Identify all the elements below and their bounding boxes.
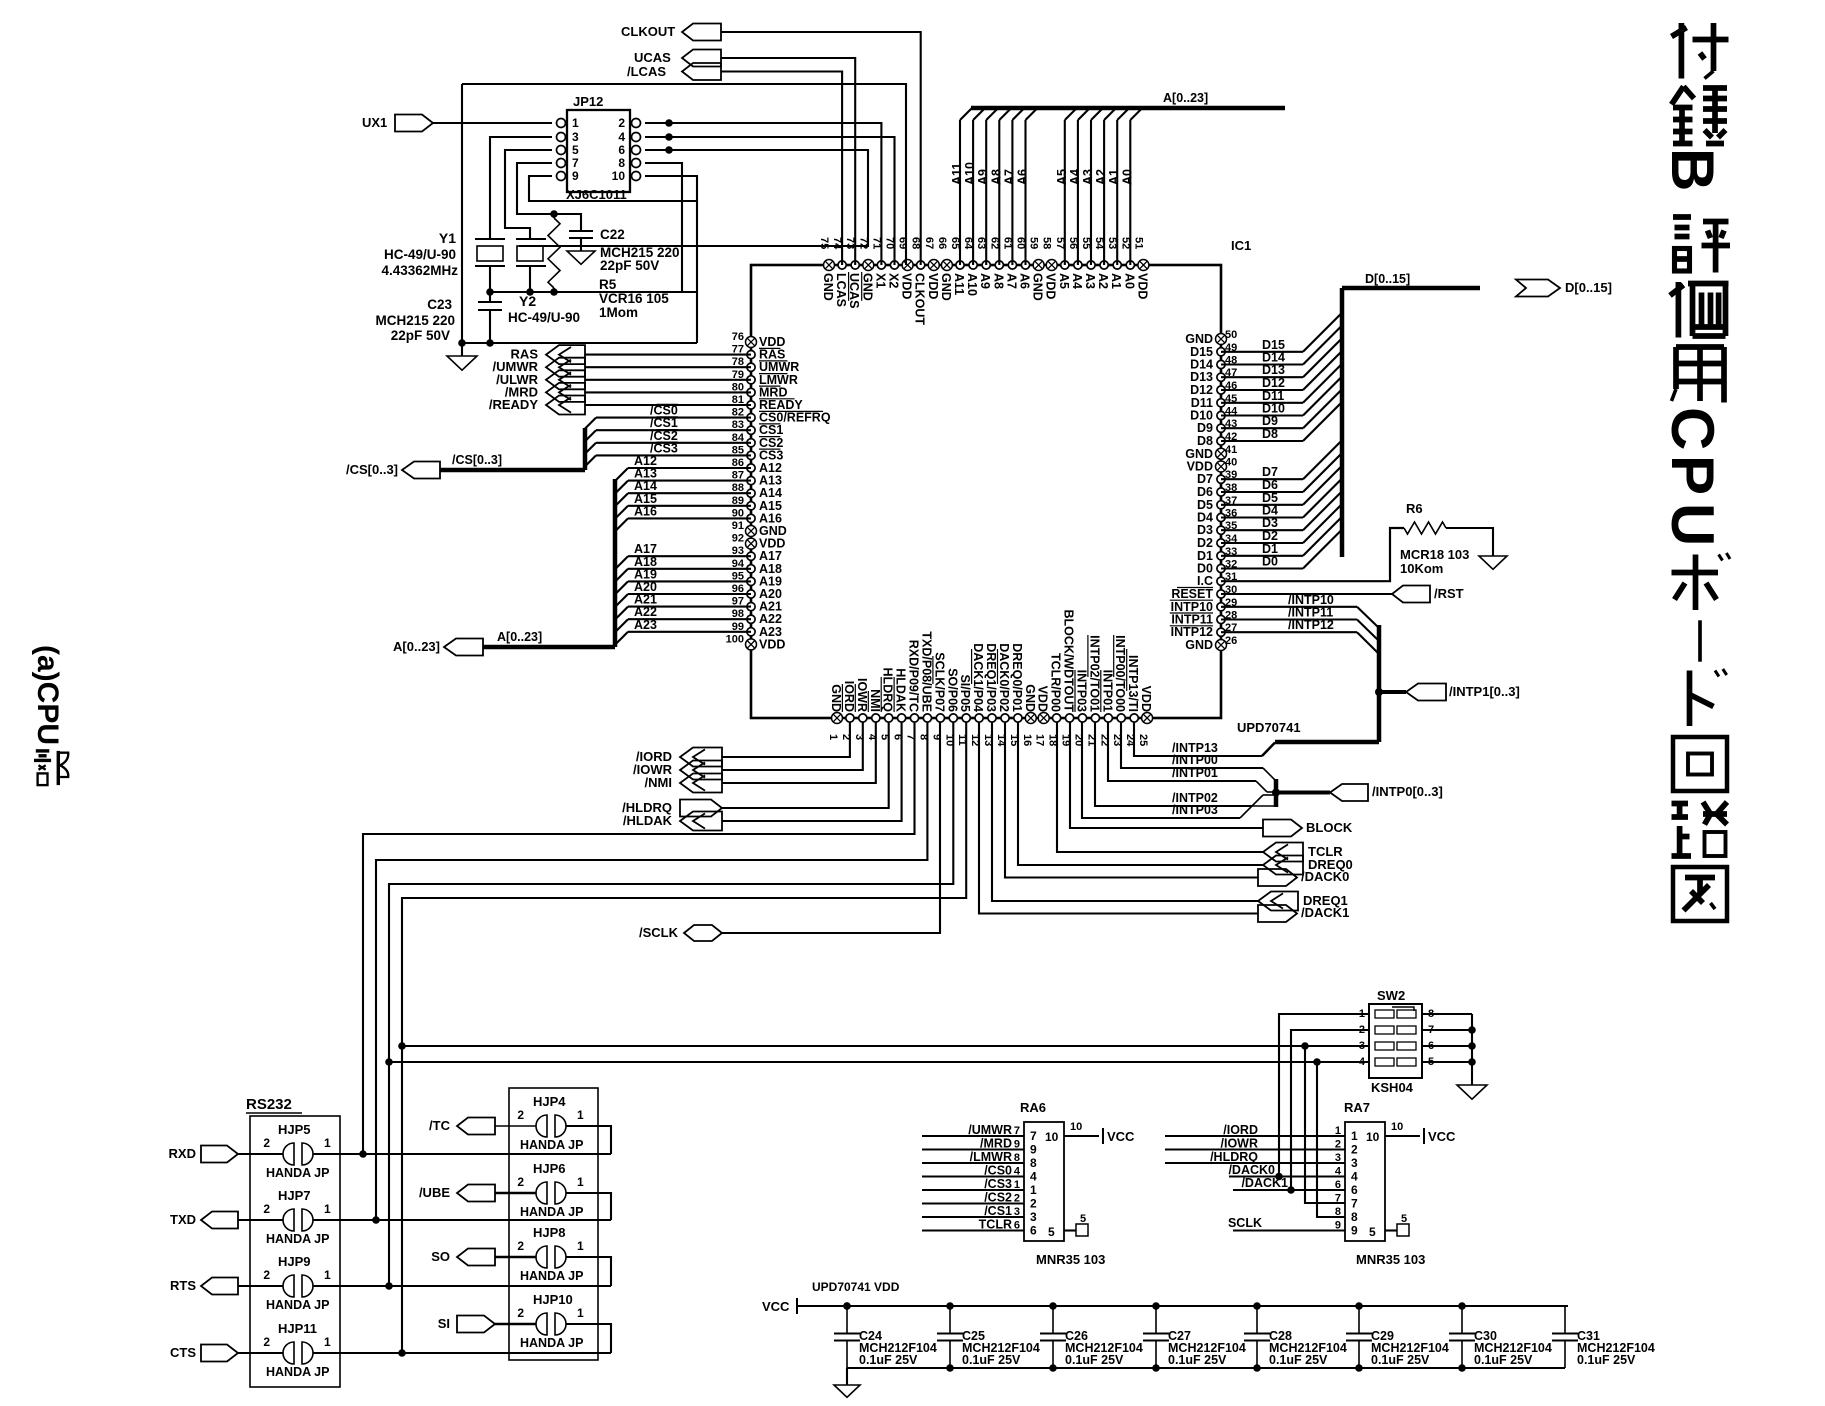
svg-text:5: 5 bbox=[1080, 1213, 1086, 1225]
solder jumper HJP6 HANDA JP bbox=[536, 1182, 547, 1204]
svg-text:/CS1: /CS1 bbox=[984, 1204, 1012, 1218]
wire /RST to RESET pin 30 bbox=[1221, 593, 1392, 595]
svg-text:/CS3: /CS3 bbox=[984, 1177, 1012, 1191]
RA6 pin 3 wire /CS1 bbox=[922, 1216, 1024, 1218]
IC1 pin 22 (INTP01) bbox=[1104, 714, 1112, 722]
wire SCLK to RA7 pin 9 bbox=[1233, 1229, 1345, 1231]
capacitor C27 MCH212F104 0.1uF 25V bbox=[1155, 1306, 1157, 1334]
resistor R6 MCR18 103 10Kom bbox=[1404, 522, 1446, 534]
IC1 pin 11 (SI/P05) bbox=[962, 714, 970, 722]
svg-text:10: 10 bbox=[1366, 1130, 1380, 1144]
svg-text:R6: R6 bbox=[1406, 501, 1423, 516]
IC1 pin 58 (VDD) bbox=[1046, 260, 1057, 271]
TXD connector arrow bbox=[201, 1212, 238, 1229]
RA6 pin 8 wire /LMWR bbox=[922, 1162, 1024, 1164]
capacitor C24 MCH212F104 0.1uF 25V bbox=[846, 1306, 848, 1334]
junction SW2 pin4/RTS riser bbox=[385, 1058, 393, 1066]
svg-text:RXD/P09/TC: RXD/P09/TC bbox=[907, 640, 921, 712]
svg-text:4: 4 bbox=[1030, 1170, 1037, 1184]
IC1 pin 78 (UMWR) bbox=[747, 363, 755, 371]
IC1 pin 1 (GND) bbox=[832, 713, 843, 724]
interrupt bus bottom horizontal bbox=[1275, 740, 1379, 745]
crystal Y2 HC-49/U-90 bbox=[516, 238, 546, 240]
JP12 pin 9 bbox=[557, 172, 566, 181]
capacitor C29 MCH212F104 0.1uF 25V bbox=[1358, 1306, 1360, 1334]
wire HJP4 output loop bbox=[566, 1126, 611, 1154]
svg-text:/NMI: /NMI bbox=[645, 775, 672, 790]
/UBE connector arrow bbox=[457, 1185, 495, 1202]
svg-text:VCC: VCC bbox=[762, 1299, 790, 1314]
resistor array RA7 MNR35 103 bbox=[1345, 1122, 1385, 1241]
svg-text:1: 1 bbox=[324, 1335, 331, 1349]
svg-text:P: P bbox=[1659, 455, 1726, 495]
svg-text:10: 10 bbox=[612, 169, 626, 183]
svg-text:D8: D8 bbox=[1262, 427, 1278, 441]
svg-text:1: 1 bbox=[572, 116, 579, 130]
wire /INTP12 bbox=[1221, 631, 1357, 633]
svg-text:X1: X1 bbox=[873, 273, 887, 288]
SW2 switch element 3 bbox=[1375, 1042, 1394, 1050]
IC1 pin 60 (A6) bbox=[1021, 261, 1029, 269]
svg-text:A[0..23]: A[0..23] bbox=[1163, 91, 1208, 105]
svg-text:UCAS: UCAS bbox=[634, 50, 671, 65]
wire R6 to ground bbox=[1446, 528, 1493, 556]
/IORD connector arrow bbox=[680, 748, 722, 767]
D[0..15] connector arrow bbox=[1516, 280, 1560, 297]
svg-text:VCR16 105: VCR16 105 bbox=[599, 291, 669, 306]
junction on JP12 pin 6 net bbox=[665, 146, 673, 154]
svg-text:22pF 50V: 22pF 50V bbox=[391, 328, 450, 343]
/HLDRQ connector arrow bbox=[680, 800, 722, 817]
wire /HLDAK from pin 6 bbox=[722, 722, 902, 821]
IC1 pin 57 (A5) bbox=[1061, 261, 1069, 269]
svg-text:7: 7 bbox=[1351, 1197, 1358, 1211]
IC1 pin 76 (VDD) bbox=[746, 337, 757, 348]
wire /DACK0 from pin 14 bbox=[1005, 722, 1258, 878]
wire address A9 from bus to pin 63 bbox=[985, 120, 987, 265]
wire /INTP03 from pin 20 bbox=[1082, 722, 1240, 818]
IC1 pin 64 (A10) bbox=[969, 261, 977, 269]
A[0..23] connector arrow bbox=[444, 639, 483, 656]
svg-text:UX1: UX1 bbox=[362, 115, 387, 130]
svg-text:VDD: VDD bbox=[1139, 686, 1153, 712]
svg-text:BLOCK: BLOCK bbox=[1306, 820, 1353, 835]
svg-text:/TC: /TC bbox=[429, 1118, 451, 1133]
svg-text:D14: D14 bbox=[1190, 358, 1213, 372]
svg-text:4: 4 bbox=[1014, 1166, 1021, 1178]
wire SO arrow to jumper bbox=[495, 1256, 536, 1259]
ground below C22 bbox=[567, 251, 595, 264]
wire JP12 pin 4 to X2 bbox=[645, 137, 895, 265]
wire A20 bbox=[628, 593, 751, 595]
svg-text:MNR35 103: MNR35 103 bbox=[1356, 1252, 1425, 1267]
svg-text:VDD: VDD bbox=[1187, 460, 1213, 474]
wire pin 11 SI to RS232 section bbox=[402, 722, 966, 1353]
svg-text:HLDRQ: HLDRQ bbox=[881, 668, 895, 713]
svg-text:HJP6: HJP6 bbox=[533, 1161, 566, 1176]
IC1 pin 79 (LMWR) bbox=[747, 376, 755, 384]
svg-text:/DACK0: /DACK0 bbox=[1301, 869, 1349, 884]
svg-text:22pF 50V: 22pF 50V bbox=[600, 258, 659, 273]
IC1 pin 15 (DREQ0/P01) bbox=[1014, 714, 1022, 722]
junction on JP12 pin 4 net bbox=[665, 133, 673, 141]
svg-text:HANDA JP: HANDA JP bbox=[520, 1269, 583, 1283]
wire data D15 pin 49 to bus bbox=[1221, 351, 1303, 353]
IC1 pin 20 (INTP03) bbox=[1078, 714, 1086, 722]
svg-text:8: 8 bbox=[1351, 1210, 1358, 1224]
wire data D7 pin 39 to bus bbox=[1221, 478, 1303, 480]
interrupt bus /INTP0[0..3] bar bbox=[1274, 779, 1279, 807]
wire TXD jumper to right bbox=[313, 1219, 611, 1221]
svg-text:0.1uF 25V: 0.1uF 25V bbox=[1269, 1353, 1328, 1367]
svg-text:SO/P06: SO/P06 bbox=[945, 668, 959, 712]
wire /INTP00 from pin 23 bbox=[1121, 722, 1263, 768]
svg-text:D5: D5 bbox=[1197, 498, 1213, 512]
svg-text:GND: GND bbox=[939, 273, 953, 301]
solder jumper HJP7 HANDA JP bbox=[283, 1209, 294, 1231]
wire pin 8 TXD to RS232 section bbox=[376, 722, 927, 1220]
IC1 pin 25 (VDD) bbox=[1142, 713, 1153, 724]
svg-text:0.1uF 25V: 0.1uF 25V bbox=[1474, 1353, 1533, 1367]
wire /IORD from pin 2 bbox=[722, 722, 850, 757]
/RST connector arrow bbox=[1392, 586, 1430, 603]
svg-text:1: 1 bbox=[324, 1202, 331, 1216]
svg-text:10: 10 bbox=[1070, 1121, 1082, 1133]
ground node wire y=343 bbox=[462, 342, 697, 344]
IC1 pin 39 (D7) bbox=[1217, 475, 1225, 483]
/CS[0..3] connector arrow bbox=[402, 462, 440, 479]
wire data D14 pin 48 to bus bbox=[1221, 363, 1303, 365]
solder jumper HJP9 HANDA JP bbox=[283, 1275, 294, 1297]
svg-text:(a)CPU: (a)CPU bbox=[31, 645, 64, 745]
/TC connector arrow bbox=[457, 1118, 495, 1135]
svg-text:/READY: /READY bbox=[489, 397, 538, 412]
svg-text:6: 6 bbox=[1030, 1224, 1037, 1238]
wire RTS arrow to jumper bbox=[238, 1285, 283, 1287]
svg-text:A3: A3 bbox=[1081, 169, 1095, 185]
svg-text:D0: D0 bbox=[1197, 562, 1213, 576]
svg-text:GND: GND bbox=[821, 273, 835, 301]
svg-text:D6: D6 bbox=[1197, 485, 1213, 499]
svg-text:A11: A11 bbox=[950, 163, 964, 185]
svg-text:GND: GND bbox=[829, 684, 843, 712]
IC1 pin 85 (CS3) bbox=[747, 451, 755, 459]
IC1 pin 55 (A3) bbox=[1087, 261, 1095, 269]
svg-text:4: 4 bbox=[1351, 1170, 1358, 1184]
svg-text:2: 2 bbox=[1014, 1193, 1020, 1205]
wire /INTP11 bbox=[1221, 618, 1357, 620]
RAS connector arrow bbox=[546, 345, 585, 364]
junction TXD riser bbox=[372, 1216, 380, 1224]
wire data D4 pin 36 to bus bbox=[1221, 516, 1303, 518]
JP12 pin 4 bbox=[632, 133, 641, 142]
svg-text:2: 2 bbox=[618, 116, 625, 130]
wire bus to /INTP0[0..3] connector bbox=[1276, 791, 1330, 795]
wire A19 bbox=[628, 580, 751, 582]
svg-text:2: 2 bbox=[263, 1202, 270, 1216]
svg-text:/INTP01: /INTP01 bbox=[1172, 766, 1218, 780]
wire upper rail to VDD pin 69 region bbox=[462, 84, 906, 265]
jumper block JP12 XJ6C1011 bbox=[567, 110, 630, 192]
svg-text:1Mom: 1Mom bbox=[599, 305, 638, 320]
svg-text:A8: A8 bbox=[989, 169, 1003, 185]
svg-text:9: 9 bbox=[1351, 1224, 1358, 1238]
wire A16 bbox=[628, 517, 751, 519]
wire address A0 from bus to pin 52 bbox=[1129, 120, 1131, 265]
wire I.C pin 31 to R6 bbox=[1221, 528, 1404, 581]
svg-text:HLDAK: HLDAK bbox=[894, 668, 908, 712]
IC1 pin 29 (INTP10) bbox=[1217, 603, 1225, 611]
wire data D3 pin 35 to bus bbox=[1221, 529, 1303, 531]
data bus D[0..15] horizontal to connector bbox=[1342, 286, 1480, 291]
svg-text:/INTP03: /INTP03 bbox=[1172, 803, 1218, 817]
IC1 pin 40 (VDD) bbox=[1216, 461, 1227, 472]
svg-text:2: 2 bbox=[517, 1239, 524, 1253]
wire TCLR from pin 18 bbox=[1057, 722, 1263, 852]
DIP switch SW2 KSH04 bbox=[1369, 1004, 1422, 1078]
svg-text:MCH215 220: MCH215 220 bbox=[375, 313, 455, 328]
svg-text:CTS: CTS bbox=[170, 1345, 196, 1360]
IC1 pin 4 (NMI) bbox=[872, 714, 880, 722]
IC1 pin 59 (GND) bbox=[1033, 260, 1044, 271]
wire UX1 to JP12 pin 1 bbox=[433, 122, 552, 124]
svg-text:TXD: TXD bbox=[170, 1212, 196, 1227]
resistor array RA6 MNR35 103 bbox=[1024, 1122, 1064, 1241]
IC1 pin 69 (VDD) bbox=[902, 260, 913, 271]
svg-text:GND: GND bbox=[860, 273, 874, 301]
svg-text:/DACK0: /DACK0 bbox=[1228, 1163, 1275, 1177]
DREQ0 connector arrow bbox=[1263, 856, 1303, 875]
svg-text:LCAS: LCAS bbox=[834, 273, 848, 307]
svg-text:A4: A4 bbox=[1070, 273, 1084, 289]
RXD connector arrow bbox=[201, 1146, 238, 1163]
svg-text:INTP13/TI: INTP13/TI bbox=[1126, 655, 1140, 712]
IC1 pin 37 (D5) bbox=[1217, 501, 1225, 509]
capacitor C28 MCH212F104 0.1uF 25V bbox=[1256, 1306, 1258, 1334]
IC1 pin 28 (INTP11) bbox=[1217, 615, 1225, 623]
svg-text:RTS: RTS bbox=[170, 1278, 196, 1293]
svg-text:1: 1 bbox=[1351, 1129, 1358, 1143]
svg-text:8: 8 bbox=[1014, 1152, 1020, 1164]
svg-text:10Kom: 10Kom bbox=[1400, 561, 1443, 576]
svg-text:VCC: VCC bbox=[1107, 1129, 1135, 1144]
svg-text:TCLR: TCLR bbox=[979, 1218, 1012, 1232]
wire address A10 from bus to pin 64 bbox=[972, 120, 974, 265]
wire UCAS to pin 73 bbox=[721, 58, 855, 265]
IC1 pin 100 (VDD) bbox=[746, 639, 757, 650]
IC1 pin 42 (D8) bbox=[1217, 437, 1225, 445]
wire RTS jumper to right bbox=[313, 1285, 611, 1287]
crystal Y1 HC-49/U-90 4.43362MHz bbox=[475, 238, 505, 240]
capacitor C30 MCH212F104 0.1uF 25V bbox=[1461, 1306, 1463, 1334]
wire DREQ1 from pin 13 bbox=[992, 722, 1258, 901]
junction SW2 pin3 to RA7 pin7 riser bbox=[1301, 1042, 1309, 1050]
capacitor bank top rail UPD70741 VDD bbox=[797, 1305, 1568, 1307]
svg-text:/DACK1: /DACK1 bbox=[1241, 1176, 1288, 1190]
junction /DACK0 and SW2 pin1 bbox=[1275, 1173, 1283, 1181]
capacitor bank bottom rail bbox=[847, 1367, 1565, 1369]
IC1 pin 23 (INTP00/TO00) bbox=[1117, 714, 1125, 722]
junction on JP12 pin 2 net bbox=[665, 119, 673, 127]
svg-text:9: 9 bbox=[1014, 1139, 1020, 1151]
svg-text:DACK0/P02: DACK0/P02 bbox=[997, 643, 1011, 712]
junction /INTP0 bus bbox=[1272, 789, 1280, 797]
wire HJP10 output loop bbox=[566, 1324, 611, 1353]
svg-text:7: 7 bbox=[1335, 1193, 1341, 1205]
IC1 pin 44 (D10) bbox=[1217, 411, 1225, 419]
svg-text:INTP00/TO00: INTP00/TO00 bbox=[1113, 635, 1127, 712]
svg-text:2: 2 bbox=[1030, 1197, 1037, 1211]
JP12 pin 5 bbox=[557, 146, 566, 155]
svg-text:RA6: RA6 bbox=[1020, 1100, 1046, 1115]
svg-text:CLKOUT: CLKOUT bbox=[913, 273, 927, 325]
wire A17 bbox=[628, 555, 751, 557]
wire SW2 pin 1 to /DACK0 net bbox=[1279, 1014, 1369, 1177]
wire A21 bbox=[628, 606, 751, 608]
/READY connector arrow bbox=[546, 396, 585, 415]
JP12 pin 8 bbox=[632, 159, 641, 168]
svg-text:6: 6 bbox=[1351, 1183, 1358, 1197]
IC1 pin 8 (TXD/P08/UBE) bbox=[923, 714, 931, 722]
IC1 pin 72 (GND) bbox=[863, 260, 874, 271]
/ULWR connector arrow bbox=[546, 370, 585, 389]
IC1 pin 5 (HLDRQ) bbox=[885, 714, 893, 722]
wire address A6 from bus to pin 60 bbox=[1024, 120, 1026, 265]
svg-text:SW2: SW2 bbox=[1377, 988, 1405, 1003]
svg-text:HJP8: HJP8 bbox=[533, 1225, 566, 1240]
wire JP12 pin 8 bbox=[645, 163, 682, 292]
svg-text:JP12: JP12 bbox=[573, 94, 603, 109]
wire A23 bbox=[628, 631, 751, 633]
IC1 pin 18 (TCLR/P00) bbox=[1053, 714, 1061, 722]
IC1 pin 56 (A4) bbox=[1074, 261, 1082, 269]
IC1 pin 67 (VDD) bbox=[928, 260, 939, 271]
wire JP12 pin 6 bbox=[519, 150, 868, 246]
serial select group box right bbox=[509, 1088, 598, 1360]
/INTP0[0..3] connector arrow bbox=[1330, 784, 1368, 801]
IC1 pin 92 (VDD) bbox=[746, 538, 757, 549]
wire RAS to pin 77 bbox=[585, 354, 751, 356]
svg-text:KSH04: KSH04 bbox=[1371, 1080, 1414, 1095]
svg-text:INTP03: INTP03 bbox=[1075, 670, 1089, 712]
IC1 pin 61 (A7) bbox=[1008, 261, 1016, 269]
/HLDAK connector arrow bbox=[680, 812, 722, 831]
svg-text:SCLK/P07: SCLK/P07 bbox=[932, 652, 946, 712]
wire /IOWR to RA7 bbox=[1165, 1148, 1345, 1150]
svg-text:IC1: IC1 bbox=[1231, 238, 1251, 253]
resistor R5 VCR16 105 1Mom bbox=[553, 214, 555, 218]
svg-text:/MRD: /MRD bbox=[980, 1137, 1012, 1151]
CTS connector arrow bbox=[201, 1345, 238, 1362]
wire SI arrow to jumper bbox=[495, 1323, 536, 1326]
IC1 pin 30 (RESET) bbox=[1217, 590, 1225, 598]
svg-text:1: 1 bbox=[577, 1239, 584, 1253]
svg-text:MCR18 103: MCR18 103 bbox=[1400, 547, 1469, 562]
wire /INTP13 from pin 24 bbox=[1134, 722, 1262, 756]
interrupt bus /INTP1[0..3] vertical bbox=[1377, 625, 1382, 742]
svg-text:I.C: I.C bbox=[1197, 574, 1213, 588]
svg-text:HJP10: HJP10 bbox=[533, 1292, 573, 1307]
wire A18 bbox=[628, 568, 751, 570]
svg-text:59: 59 bbox=[1028, 237, 1040, 249]
wire SW2 pin 4 long row bbox=[389, 1061, 1369, 1063]
svg-text:D8: D8 bbox=[1197, 434, 1213, 448]
address bus A[0..23] top bbox=[971, 106, 1285, 111]
svg-text:IOWR: IOWR bbox=[855, 678, 869, 712]
IC1 pin 99 (A23) bbox=[747, 628, 755, 636]
svg-text:VDD: VDD bbox=[926, 273, 940, 299]
svg-text:50: 50 bbox=[1225, 329, 1237, 341]
svg-text:3: 3 bbox=[1351, 1156, 1358, 1170]
capacitor C22 MCH215 220 22pF 50V bbox=[554, 214, 581, 231]
svg-text:MNR35 103: MNR35 103 bbox=[1036, 1252, 1105, 1267]
svg-text:10: 10 bbox=[1391, 1121, 1403, 1133]
svg-text:75: 75 bbox=[818, 237, 830, 249]
RA6 pin 2 wire /CS2 bbox=[922, 1202, 1024, 1204]
IC1 pin 52 (A0) bbox=[1126, 261, 1134, 269]
IC1 pin 7 (RXD/P09/TC) bbox=[910, 714, 918, 722]
svg-text:0.1uF 25V: 0.1uF 25V bbox=[1065, 1353, 1124, 1367]
ground below SW2 bbox=[1457, 1085, 1487, 1099]
svg-text:4: 4 bbox=[618, 130, 625, 144]
/INTP1[0..3] connector arrow bbox=[1406, 684, 1446, 701]
IC1 pin 48 (D14) bbox=[1217, 360, 1225, 368]
wire /IOWR from pin 3 bbox=[722, 722, 863, 770]
wire A22 bbox=[628, 618, 751, 620]
svg-text:D0: D0 bbox=[1262, 555, 1278, 569]
svg-text:0.1uF 25V: 0.1uF 25V bbox=[859, 1353, 918, 1367]
IC1 pin 96 (A20) bbox=[747, 590, 755, 598]
svg-text:GND: GND bbox=[1185, 447, 1213, 461]
RA6 pin 4 wire /CS0 bbox=[922, 1175, 1024, 1177]
svg-text:A16: A16 bbox=[634, 504, 657, 518]
wire /HLDRQ from pin 5 bbox=[722, 722, 889, 808]
svg-text:D10: D10 bbox=[1190, 409, 1213, 423]
IC1 pin 49 (D15) bbox=[1217, 348, 1225, 356]
wire riser to RA7 row 8 bbox=[1317, 1062, 1345, 1217]
IC1 pin 10 (SO/P06) bbox=[949, 714, 957, 722]
IC1 pin 97 (A21) bbox=[747, 603, 755, 611]
svg-text:D2: D2 bbox=[1197, 536, 1213, 550]
svg-text:7: 7 bbox=[1014, 1125, 1020, 1137]
svg-text:DREQ1/P03: DREQ1/P03 bbox=[984, 643, 998, 712]
IC1 pin 81 (READY) bbox=[747, 401, 755, 409]
wire address A11 from bus to pin 65 bbox=[959, 120, 961, 265]
svg-text:/CS[0..3]: /CS[0..3] bbox=[346, 462, 398, 477]
SW2 actuator mark bbox=[1392, 1007, 1414, 1011]
/SCLK connector arrow bbox=[684, 925, 722, 941]
svg-text:XJ6C1011: XJ6C1011 bbox=[566, 187, 627, 202]
IC1 pin 26 (GND) bbox=[1216, 640, 1227, 651]
svg-text:GND: GND bbox=[1031, 273, 1045, 301]
svg-text:100: 100 bbox=[726, 633, 744, 645]
svg-text:6: 6 bbox=[618, 143, 625, 157]
solder jumper HJP11 HANDA JP bbox=[283, 1342, 294, 1364]
wire /NMI from pin 4 bbox=[722, 722, 876, 783]
SW2 switch element 1 bbox=[1375, 1010, 1394, 1018]
svg-text:Y1: Y1 bbox=[439, 230, 456, 246]
capacitor C31 MCH212F104 0.1uF 25V bbox=[1564, 1306, 1566, 1334]
wire DREQ0 from pin 15 bbox=[1018, 722, 1263, 865]
svg-text:2: 2 bbox=[1351, 1143, 1358, 1157]
DREQ1 connector arrow bbox=[1258, 892, 1298, 911]
svg-text:A5: A5 bbox=[1055, 169, 1069, 185]
svg-text:D3: D3 bbox=[1197, 523, 1213, 537]
svg-text:26: 26 bbox=[1225, 635, 1237, 647]
wire pin 7 RXD to RS232 section bbox=[363, 722, 915, 1154]
RA6 pin 1 wire /CS3 bbox=[922, 1189, 1024, 1191]
IC1 pin 86 (A12) bbox=[747, 464, 755, 472]
